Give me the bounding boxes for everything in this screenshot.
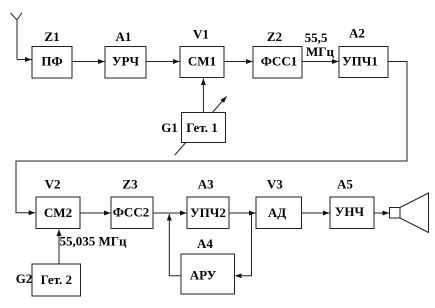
svg-text:A1: A1 [116,29,132,44]
svg-text:V3: V3 [267,176,283,191]
svg-text:A2: A2 [349,26,365,41]
wire antenna to PF [17,59,32,61]
wire ARU to UPCh2 input (AGC up) [169,214,181,276]
svg-text:АРУ: АРУ [190,268,217,283]
svg-text:АД: АД [268,205,286,220]
wire UPCh2 to AD [229,212,256,214]
antenna [11,13,23,60]
wire FSS2 to UPCh2 [153,212,187,214]
wire junction to ARU (AGC tap) [235,214,251,276]
svg-text:ПФ: ПФ [41,53,62,68]
wire UNCh to speaker [374,212,389,214]
svg-text:55,035 МГц: 55,035 МГц [60,234,128,249]
amplifier A2 (УПЧ1) [339,47,388,78]
wire Get2 to SM2 [58,230,60,265]
filter Z3 (ФСС2) [111,197,153,229]
svg-text:УПЧ1: УПЧ1 [342,54,378,69]
oscillator G2 (Гет. 2) [32,264,81,296]
svg-text:УРЧ: УРЧ [112,53,139,68]
svg-text:УНЧ: УНЧ [335,204,365,219]
svg-text:A4: A4 [197,236,213,251]
amplifier A5 (УНЧ) [330,197,374,229]
tuning arrow on G1 [175,97,227,156]
svg-text:Z1: Z1 [44,29,59,44]
wire FSS1 to UPCh1 [302,61,339,63]
svg-text:Z3: Z3 [122,177,138,192]
mixer V2 (СМ2) [36,197,80,229]
svg-text:V1: V1 [193,27,209,42]
svg-text:УПЧ2: УПЧ2 [190,205,226,220]
svg-text:55,5: 55,5 [305,30,328,45]
detector V3 (АД) [256,197,302,229]
svg-text:СМ2: СМ2 [44,205,72,220]
svg-text:G1: G1 [161,120,178,135]
wire SM1 to FSS1 [224,61,253,63]
svg-text:ФСС1: ФСС1 [261,54,297,69]
svg-text:G2: G2 [16,271,33,286]
svg-text:Z2: Z2 [267,29,282,44]
filter Z2 (ФСС1) [253,47,302,79]
wire UPCh1 to SM2 (feedback path) [16,62,407,213]
mixer V1 (СМ1) [180,47,224,78]
wire URCh to SM1 [146,61,180,63]
svg-text:Гет. 1: Гет. 1 [186,120,217,135]
svg-text:V2: V2 [45,177,61,192]
svg-text:A3: A3 [198,176,214,191]
svg-text:МГц: МГц [306,44,335,59]
AGC block A4 (АРУ) [181,254,235,294]
wire AD to UNCh [302,212,330,214]
amplifier A3 (УПЧ2) [187,197,229,229]
wire Get1 to SM1 [202,79,204,113]
svg-text:A5: A5 [337,176,353,191]
label 55,5 МГц [305,30,335,59]
oscillator G1 (Гет. 1) [182,113,226,143]
speaker [390,193,429,233]
wire SM2 to FSS2 [80,212,111,214]
svg-text:Гет. 2: Гет. 2 [41,272,72,287]
filter Z1 (ПФ) [32,47,72,79]
amplifier A1 (УРЧ) [105,47,146,79]
wire PF to URCh [72,61,105,63]
svg-text:ФСС2: ФСС2 [113,205,149,220]
svg-text:СМ1: СМ1 [188,53,216,68]
